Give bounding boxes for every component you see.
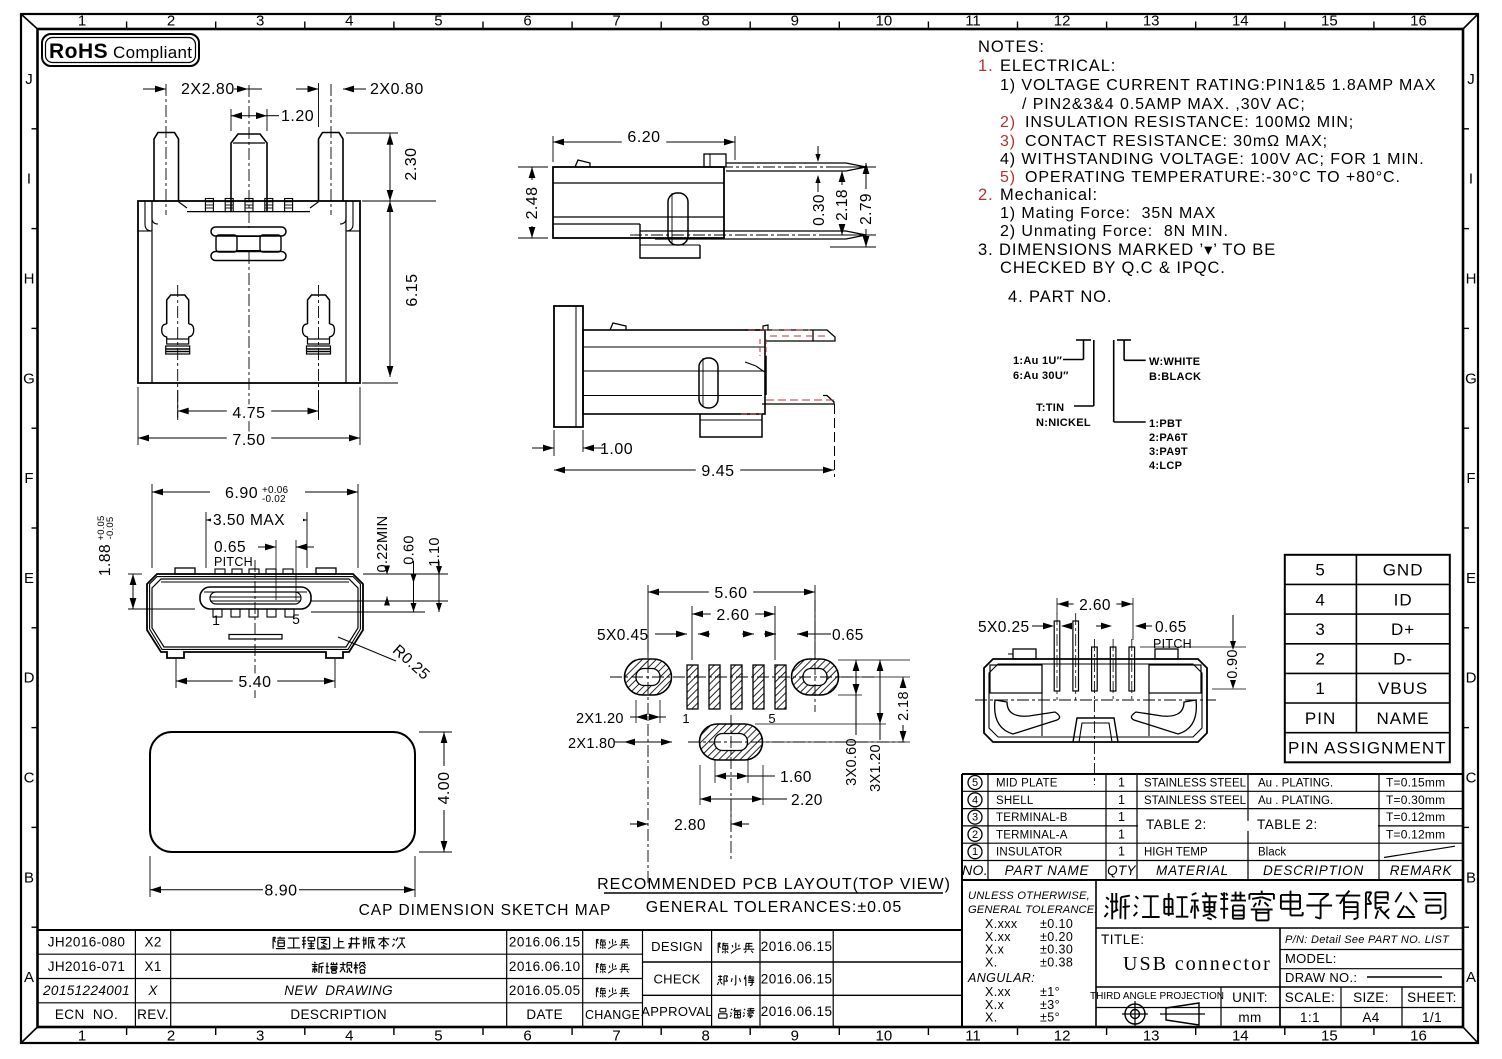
svg-text:3): 3) — [1000, 133, 1016, 150]
svg-text:7: 7 — [612, 13, 620, 30]
svg-text:PITCH: PITCH — [214, 555, 253, 569]
svg-text:N:NICKEL: N:NICKEL — [1036, 417, 1091, 429]
svg-text:6: 6 — [523, 13, 531, 30]
svg-text:Au . PLATING.: Au . PLATING. — [1258, 795, 1333, 807]
svg-text:2: 2 — [972, 829, 978, 841]
svg-text:SHEET:: SHEET: — [1407, 990, 1457, 1005]
svg-text:7: 7 — [612, 1028, 620, 1045]
svg-text:REV.: REV. — [137, 1007, 169, 1022]
svg-text:1.20: 1.20 — [281, 108, 314, 125]
svg-text:4. PART NO.: 4. PART NO. — [1008, 288, 1112, 306]
svg-text:8.90: 8.90 — [264, 883, 297, 900]
svg-text:T=0.12mm: T=0.12mm — [1386, 827, 1445, 841]
svg-text:1.00: 1.00 — [600, 441, 633, 458]
svg-text:SCALE:: SCALE: — [1285, 990, 1335, 1005]
svg-text:3: 3 — [1315, 620, 1325, 639]
svg-text:3: 3 — [972, 812, 978, 824]
svg-text:1: 1 — [212, 612, 220, 628]
svg-text:3X0.60: 3X0.60 — [844, 738, 860, 786]
svg-text:2.30: 2.30 — [403, 147, 420, 180]
svg-text:13: 13 — [1143, 1028, 1160, 1045]
svg-text:ID: ID — [1394, 590, 1413, 609]
svg-text:4: 4 — [345, 13, 353, 30]
svg-text:11: 11 — [965, 13, 981, 30]
svg-text:1: 1 — [78, 1028, 86, 1045]
svg-text:-0.05: -0.05 — [105, 517, 116, 540]
svg-text:CHANGE: CHANGE — [585, 1008, 640, 1022]
svg-text:0.65: 0.65 — [832, 627, 864, 644]
svg-text:1: 1 — [1118, 793, 1125, 807]
svg-text:SIZE:: SIZE: — [1353, 990, 1389, 1005]
svg-text:UNIT:: UNIT: — [1232, 990, 1268, 1005]
svg-text:0.60: 0.60 — [402, 535, 418, 564]
svg-text:2.60: 2.60 — [1079, 597, 1111, 614]
svg-text:2): 2) — [1000, 114, 1016, 131]
svg-text:D: D — [24, 670, 35, 687]
svg-text:TABLE 2:: TABLE 2: — [1257, 817, 1318, 832]
svg-text:15: 15 — [1321, 1028, 1338, 1045]
svg-text:D+: D+ — [1391, 620, 1415, 639]
svg-text:6.15: 6.15 — [404, 273, 421, 306]
svg-text:CHECKED BY Q.C & IPQC.: CHECKED BY Q.C & IPQC. — [1000, 259, 1226, 277]
svg-text:X2: X2 — [144, 935, 161, 950]
svg-text:Mechanical:: Mechanical: — [1000, 186, 1098, 204]
svg-text:E: E — [1466, 570, 1476, 587]
svg-text:3. DIMENSIONS MARKED ’▾’ TO BE: 3. DIMENSIONS MARKED ’▾’ TO BE — [978, 241, 1276, 259]
svg-text:1) VOLTAGE CURRENT RATING:PIN1: 1) VOLTAGE CURRENT RATING:PIN1&5 1.8AMP … — [1000, 77, 1436, 94]
svg-text:2.18: 2.18 — [896, 691, 912, 721]
svg-text:5X0.25: 5X0.25 — [978, 619, 1030, 636]
svg-text:DESCRIPTION: DESCRIPTION — [290, 1007, 387, 1022]
svg-text:1) Mating Force: 35N MAX: 1) Mating Force: 35N MAX — [1000, 205, 1216, 222]
svg-text:APPROVAL: APPROVAL — [641, 1004, 713, 1019]
svg-text:T=0.15mm: T=0.15mm — [1386, 776, 1445, 790]
svg-text:X: X — [147, 983, 158, 998]
svg-text:NOTES:: NOTES: — [978, 38, 1045, 56]
svg-text:3: 3 — [256, 1028, 264, 1045]
svg-text:12: 12 — [1054, 1028, 1071, 1045]
svg-text:3.50 MAX: 3.50 MAX — [213, 512, 285, 529]
svg-text:ECN NO.: ECN NO. — [55, 1007, 118, 1022]
svg-text:2016.06.15: 2016.06.15 — [761, 939, 833, 954]
svg-text:D-: D- — [1393, 650, 1413, 669]
svg-text:STAINLESS STEEL: STAINLESS STEEL — [1144, 795, 1247, 807]
svg-text:1:PBT: 1:PBT — [1149, 418, 1182, 430]
svg-text:5: 5 — [292, 611, 300, 627]
svg-text:ELECTRICAL:: ELECTRICAL: — [1000, 57, 1116, 75]
svg-text:2:PA6T: 2:PA6T — [1149, 432, 1188, 444]
svg-text:mm: mm — [1238, 1010, 1261, 1025]
svg-text:9.45: 9.45 — [701, 463, 734, 480]
svg-text:1: 1 — [682, 711, 689, 726]
svg-text:F: F — [24, 470, 33, 487]
svg-text:MATERIAL: MATERIAL — [1156, 863, 1229, 878]
svg-text:9: 9 — [791, 13, 799, 30]
svg-text:STAINLESS STEEL: STAINLESS STEEL — [1144, 778, 1247, 790]
svg-text:J: J — [1467, 71, 1475, 88]
svg-text:PART NAME: PART NAME — [1005, 863, 1090, 878]
svg-text:H: H — [24, 271, 35, 288]
svg-text:1: 1 — [1118, 776, 1125, 790]
svg-text:1: 1 — [1118, 810, 1125, 824]
svg-text:F: F — [1466, 470, 1475, 487]
svg-text:2.20: 2.20 — [791, 792, 823, 809]
svg-text:REMARK: REMARK — [1390, 863, 1453, 878]
svg-text:0.30: 0.30 — [811, 194, 828, 226]
svg-text:0.65: 0.65 — [214, 539, 246, 556]
svg-text:1:Au 1U″: 1:Au 1U″ — [1013, 355, 1063, 367]
svg-text:2016.05.05: 2016.05.05 — [509, 983, 581, 998]
svg-text:T=0.30mm: T=0.30mm — [1386, 793, 1445, 807]
svg-text:6: 6 — [523, 1028, 531, 1045]
svg-text:5: 5 — [434, 13, 442, 30]
svg-text:G: G — [1465, 370, 1477, 387]
svg-text:2.79: 2.79 — [858, 193, 875, 225]
svg-text:NAME: NAME — [1377, 709, 1430, 728]
svg-text:H: H — [1466, 271, 1477, 288]
svg-text:2X1.80: 2X1.80 — [568, 736, 616, 752]
svg-text:11: 11 — [965, 1028, 981, 1045]
svg-text:10: 10 — [876, 1028, 893, 1045]
svg-text:4.75: 4.75 — [232, 405, 265, 422]
svg-text:B:BLACK: B:BLACK — [1149, 371, 1201, 383]
svg-text:CONTACT RESISTANCE: 30mΩ MAX;: CONTACT RESISTANCE: 30mΩ MAX; — [1025, 133, 1328, 150]
svg-text:2.80: 2.80 — [674, 817, 706, 834]
svg-text:14: 14 — [1232, 13, 1249, 30]
svg-text:ANGULAR:: ANGULAR: — [967, 971, 1035, 985]
svg-text:PIN: PIN — [1305, 709, 1336, 728]
svg-text:1: 1 — [1315, 679, 1325, 698]
svg-text:1: 1 — [972, 846, 978, 858]
svg-text:C: C — [24, 770, 35, 787]
svg-text:NO.: NO. — [962, 862, 988, 878]
svg-text:GND: GND — [1383, 561, 1424, 580]
svg-text:2016.06.10: 2016.06.10 — [509, 959, 581, 974]
svg-text:2X1.20: 2X1.20 — [576, 711, 624, 727]
svg-text:TABLE 2:: TABLE 2: — [1146, 817, 1207, 832]
svg-text:DESIGN: DESIGN — [651, 939, 703, 954]
svg-text:3X1.20: 3X1.20 — [868, 744, 884, 792]
svg-text:DRAW NO.:: DRAW NO.: — [1285, 970, 1357, 985]
svg-text:0.90: 0.90 — [1225, 649, 1241, 678]
svg-text:5): 5) — [1000, 169, 1016, 186]
svg-text:6.20: 6.20 — [627, 129, 660, 146]
svg-text:X.: X. — [985, 1011, 998, 1025]
svg-text:5: 5 — [434, 1028, 442, 1045]
svg-text:T=0.12mm: T=0.12mm — [1386, 810, 1445, 824]
svg-text:5X0.45: 5X0.45 — [597, 627, 649, 644]
svg-text:Au . PLATING.: Au . PLATING. — [1258, 778, 1333, 790]
svg-text:E: E — [24, 570, 34, 587]
svg-text:2.18: 2.18 — [834, 189, 851, 221]
svg-text:5: 5 — [1315, 561, 1325, 580]
svg-text:5: 5 — [972, 777, 978, 789]
svg-text:TERMINAL-B: TERMINAL-B — [996, 812, 1068, 824]
svg-text:1.10: 1.10 — [427, 537, 443, 566]
svg-text:QTY: QTY — [1107, 863, 1136, 878]
svg-text:D: D — [1466, 670, 1477, 687]
svg-text:G: G — [23, 370, 35, 387]
svg-text:2X2.80: 2X2.80 — [181, 81, 235, 98]
svg-text:JH2016-080: JH2016-080 — [48, 935, 126, 950]
svg-text:4) WITHSTANDING VOLTAGE: 100V: 4) WITHSTANDING VOLTAGE: 100V AC; FOR 1 … — [1000, 151, 1425, 168]
svg-text:2.48: 2.48 — [524, 187, 541, 220]
svg-text:2.60: 2.60 — [716, 607, 749, 624]
svg-text:I: I — [27, 171, 31, 188]
svg-text:4: 4 — [972, 794, 978, 806]
svg-text:DESCRIPTION: DESCRIPTION — [1263, 863, 1364, 878]
svg-text:8: 8 — [702, 13, 710, 30]
svg-text:3: 3 — [256, 13, 264, 30]
svg-text:Compliant: Compliant — [113, 43, 192, 62]
svg-text:2: 2 — [1315, 650, 1325, 669]
svg-text:GENERAL TOLERANCES:±0.05: GENERAL TOLERANCES:±0.05 — [646, 899, 903, 916]
svg-text:JH2016-071: JH2016-071 — [48, 959, 126, 974]
svg-text:3:PA9T: 3:PA9T — [1149, 446, 1188, 458]
svg-text:B: B — [24, 869, 34, 886]
svg-text:OPERATING TEMPERATURE:-30°C TO: OPERATING TEMPERATURE:-30°C TO +80°C. — [1025, 169, 1401, 186]
svg-text:TERMINAL-A: TERMINAL-A — [996, 829, 1068, 841]
svg-text:PITCH: PITCH — [1153, 637, 1192, 651]
svg-text:-0.02: -0.02 — [262, 494, 286, 505]
svg-text:4:LCP: 4:LCP — [1149, 460, 1182, 472]
svg-text:MODEL:: MODEL: — [1285, 951, 1337, 966]
svg-text:SHELL: SHELL — [996, 795, 1034, 807]
svg-text:7.50: 7.50 — [232, 432, 265, 449]
svg-text:0.22MIN: 0.22MIN — [375, 516, 391, 573]
svg-text:I: I — [1469, 171, 1473, 188]
svg-text:A: A — [24, 969, 34, 986]
svg-text:P/N: Detail See PART NO. LIST: P/N: Detail See PART NO. LIST — [1285, 934, 1450, 946]
svg-text:4: 4 — [1315, 590, 1325, 609]
svg-text:2016.06.15: 2016.06.15 — [761, 1004, 833, 1019]
svg-text:2) Unmating Force: 8N MIN.: 2) Unmating Force: 8N MIN. — [1000, 223, 1229, 240]
svg-text:RoHS: RoHS — [49, 40, 108, 63]
svg-text:GENERAL TOLERANCE:: GENERAL TOLERANCE: — [968, 904, 1097, 916]
svg-text:C: C — [1466, 770, 1477, 787]
svg-text:DATE: DATE — [526, 1007, 563, 1022]
svg-text:2016.06.15: 2016.06.15 — [509, 935, 581, 950]
svg-text:X1: X1 — [144, 959, 161, 974]
svg-text:2.: 2. — [978, 186, 994, 204]
svg-text:2016.06.15: 2016.06.15 — [761, 972, 833, 987]
svg-text:VBUS: VBUS — [1378, 679, 1428, 698]
svg-text:16: 16 — [1410, 1028, 1427, 1045]
svg-text:NEW DRAWING: NEW DRAWING — [284, 983, 393, 998]
svg-text:6.90: 6.90 — [225, 485, 258, 502]
svg-text:A4: A4 — [1362, 1010, 1379, 1025]
svg-text:1: 1 — [1118, 827, 1125, 841]
svg-text:INSULATION RESISTANCE: 100MΩ M: INSULATION RESISTANCE: 100MΩ MIN; — [1025, 114, 1354, 131]
svg-text:MID PLATE: MID PLATE — [996, 778, 1058, 790]
svg-text:14: 14 — [1232, 1028, 1249, 1045]
svg-text:PIN ASSIGNMENT: PIN ASSIGNMENT — [1288, 739, 1447, 758]
svg-text:1/1: 1/1 — [1422, 1010, 1442, 1025]
svg-text:1: 1 — [78, 13, 86, 30]
svg-text:W:WHITE: W:WHITE — [1149, 356, 1200, 368]
svg-text:T:TIN: T:TIN — [1036, 402, 1064, 414]
svg-text:UNLESS OTHERWISE,: UNLESS OTHERWISE, — [968, 890, 1090, 902]
svg-text:2X0.80: 2X0.80 — [370, 81, 424, 98]
svg-text:±0.38: ±0.38 — [1040, 955, 1073, 969]
svg-text:10: 10 — [876, 13, 893, 30]
svg-text:15: 15 — [1321, 13, 1338, 30]
svg-text:8: 8 — [702, 1028, 710, 1045]
svg-text:5.60: 5.60 — [714, 585, 747, 602]
svg-text:INSULATOR: INSULATOR — [996, 847, 1063, 859]
svg-text:20151224001: 20151224001 — [42, 983, 130, 998]
svg-text:1.: 1. — [978, 57, 994, 75]
svg-text:5.40: 5.40 — [238, 674, 271, 691]
svg-text:HIGH TEMP: HIGH TEMP — [1144, 847, 1208, 859]
svg-text:J: J — [25, 71, 33, 88]
svg-text:4.00: 4.00 — [436, 772, 453, 805]
svg-text:2: 2 — [167, 13, 175, 30]
svg-text:CHECK: CHECK — [653, 972, 700, 987]
svg-text:9: 9 — [791, 1028, 799, 1045]
svg-text:Black: Black — [1258, 847, 1286, 859]
svg-text:13: 13 — [1143, 13, 1160, 30]
svg-text:THIRD ANGLE PROJECTION: THIRD ANGLE PROJECTION — [1090, 991, 1224, 1002]
svg-text:±5°: ±5° — [1040, 1011, 1060, 1025]
svg-text:4: 4 — [345, 1028, 353, 1045]
svg-text:CAP DIMENSION SKETCH MAP: CAP DIMENSION SKETCH MAP — [359, 902, 612, 919]
svg-text:2: 2 — [167, 1028, 175, 1045]
svg-text:1:1: 1:1 — [1300, 1010, 1320, 1025]
svg-text:0.65: 0.65 — [1155, 619, 1187, 636]
svg-text:/ PIN2&3&4 0.5AMP MAX. ,30V AC: / PIN2&3&4 0.5AMP MAX. ,30V AC; — [1022, 96, 1306, 113]
svg-text:12: 12 — [1054, 13, 1071, 30]
svg-text:1.60: 1.60 — [780, 769, 812, 786]
svg-text:RECOMMENDED PCB LAYOUT(TOP VIE: RECOMMENDED PCB LAYOUT(TOP VIEW) — [597, 876, 951, 893]
svg-text:1.88: 1.88 — [97, 544, 114, 576]
svg-text:B: B — [1466, 869, 1476, 886]
svg-text:A: A — [1466, 969, 1476, 986]
svg-text:1: 1 — [1118, 845, 1125, 859]
svg-text:16: 16 — [1410, 13, 1427, 30]
svg-text:USB connector: USB connector — [1123, 953, 1272, 975]
svg-text:X.: X. — [985, 955, 998, 969]
svg-text:TITLE:: TITLE: — [1101, 932, 1145, 947]
svg-text:6:Au 30U″: 6:Au 30U″ — [1013, 370, 1069, 382]
